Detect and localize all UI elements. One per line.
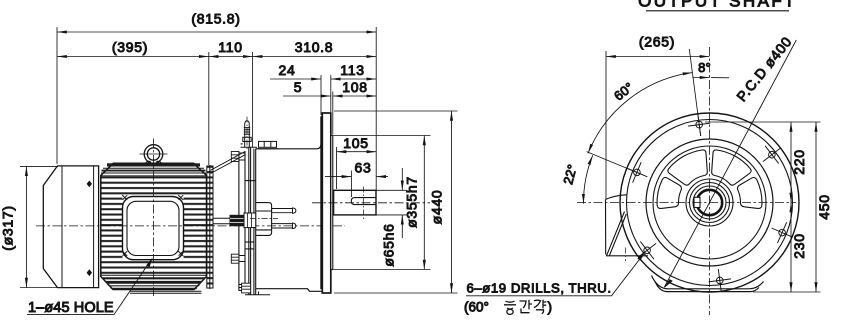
flange disc — [322, 113, 331, 293]
ext line keyway start — [350, 171, 352, 198]
svg-text:60°: 60° — [611, 79, 636, 103]
ext line 105 — [336, 147, 338, 189]
ext line top hole level — [705, 121, 821, 123]
dim 310.8 — [253, 56, 377, 58]
dim 8deg arrow — [692, 77, 729, 79]
bottom foot — [652, 276, 764, 292]
svg-text:230: 230 — [791, 233, 807, 258]
arc 60deg — [588, 73, 692, 154]
bolt hole 3 lower-left — [638, 241, 656, 259]
dim 395 — [57, 56, 209, 58]
svg-text:(265): (265) — [639, 34, 675, 50]
coupling dark blob — [230, 213, 256, 228]
dim 265 — [606, 56, 710, 58]
svg-text:5: 5 — [294, 79, 303, 95]
dim 220 — [790, 122, 792, 203]
flange rim circle — [627, 120, 793, 286]
nipple centerline — [246, 117, 248, 151]
hub circle 2 — [690, 183, 730, 223]
svg-text:220: 220 — [791, 149, 807, 174]
output shaft — [334, 190, 376, 215]
dim texts left view — [0, 11, 445, 267]
dim texts right view — [464, 33, 832, 314]
ext line left end — [56, 27, 58, 164]
ext line bottom face — [753, 291, 821, 293]
ext line 265 left — [605, 51, 607, 199]
svg-text:105: 105 — [343, 135, 368, 151]
bolt hole 5 right-lower — [772, 222, 793, 243]
motor axis centerline — [36, 225, 345, 227]
dim 63 leaders — [325, 176, 351, 178]
bolt hole 1 top — [688, 113, 710, 136]
kidney opening left — [657, 177, 681, 208]
terminal box lid — [127, 201, 179, 255]
upper rod — [272, 208, 296, 213]
svg-text:ø440: ø440 — [429, 190, 445, 225]
top bracket — [241, 144, 258, 147]
diagonal brace — [211, 152, 246, 174]
flange spigot — [331, 136, 333, 270]
dim o65h6 — [377, 189, 407, 191]
motor shaft stub — [214, 218, 231, 224]
keyway center tick — [363, 187, 365, 220]
tab center tick — [625, 248, 627, 262]
korean text 60deg spacing — [504, 300, 546, 315]
bolt hole 2 upper-left — [626, 162, 647, 183]
plate bolt top — [231, 152, 245, 162]
bell housing — [256, 116, 323, 291]
svg-text:(395): (395) — [112, 39, 148, 55]
dim 5 leader — [283, 95, 331, 97]
eyebolt — [144, 145, 163, 164]
motor vertical centerline — [153, 139, 155, 297]
plate bolt mid-low — [231, 254, 245, 263]
dim 105 — [337, 151, 377, 153]
shaft keyway — [351, 198, 376, 205]
svg-text:108: 108 — [342, 79, 367, 95]
radial line 8deg — [689, 49, 700, 136]
svg-text:113: 113 — [340, 62, 364, 78]
svg-text:): ) — [548, 299, 553, 314]
fan cover — [43, 166, 98, 288]
hub circle 3 — [693, 186, 726, 219]
motor fins lower band — [102, 260, 207, 274]
rod centerline — [250, 217, 278, 219]
motor body outline — [101, 163, 207, 289]
output shaft circle — [697, 190, 722, 215]
svg-text:P.C.D ø400: P.C.D ø400 — [733, 33, 795, 104]
motor base rail — [130, 291, 201, 293]
motor bottom band — [101, 275, 206, 289]
ext line housing face — [320, 75, 322, 115]
ext line shaft end — [375, 27, 377, 190]
svg-text:(815.8): (815.8) — [191, 11, 240, 27]
dim 108 — [333, 95, 376, 97]
leader 6-o19 — [466, 252, 645, 296]
svg-text:63: 63 — [355, 160, 372, 176]
box screw marks — [122, 195, 183, 256]
radial line 68deg — [587, 152, 643, 175]
top hex bolt — [257, 141, 279, 148]
svg-text:24: 24 — [279, 62, 296, 78]
kidney opening right — [737, 177, 761, 208]
gearbox foot — [245, 292, 270, 295]
title underline — [646, 10, 789, 12]
dim 110 — [209, 56, 253, 58]
grease nipple — [243, 121, 251, 148]
flange outer circle — [620, 113, 799, 292]
dim 450 — [815, 122, 817, 292]
bearing box — [256, 203, 272, 236]
svg-text:OUTPUT SHAFT: OUTPUT SHAFT — [638, 0, 797, 11]
flange horizontal centerline — [577, 202, 796, 204]
flange vertical centerline — [709, 47, 711, 315]
shaft keyway notch — [694, 197, 700, 207]
lower rod — [272, 223, 296, 229]
motor end bracket — [207, 165, 213, 289]
adapter plate — [239, 148, 256, 295]
dim 815.8 — [57, 31, 376, 33]
eyebolt crosshair — [140, 153, 168, 155]
flange face circle inner — [653, 146, 766, 259]
fan cover clip top — [87, 181, 92, 188]
hub circle 1 — [686, 179, 733, 226]
svg-text:ø65h6: ø65h6 — [381, 223, 397, 266]
terminal box — [123, 197, 184, 260]
dim o317 — [20, 165, 58, 167]
pcd diagonal leader — [664, 40, 796, 288]
ext line plate — [252, 52, 254, 147]
svg-text:110: 110 — [218, 39, 242, 55]
svg-text:(ø317): (ø317) — [0, 205, 16, 250]
ext line spigot face — [332, 92, 334, 135]
plate bolt bottom — [239, 283, 251, 293]
dim 24 leader — [270, 78, 321, 80]
motor fins upper band — [102, 177, 207, 197]
fan cover clip bottom — [87, 269, 92, 276]
svg-text:6–ø19 DRILLS, THRU.: 6–ø19 DRILLS, THRU. — [467, 280, 612, 295]
motor top rib band — [101, 163, 206, 176]
svg-text:310.8: 310.8 — [295, 39, 334, 55]
ext line motor right — [208, 52, 210, 165]
output axis centerline — [312, 202, 430, 204]
bolt hole 6 right-upper — [763, 146, 781, 164]
svg-text:(60°: (60° — [464, 299, 489, 314]
motor fins left of terminal box — [102, 197, 123, 260]
leader 1-045 hole — [27, 258, 153, 315]
side tab — [606, 195, 649, 256]
bolt hole 4 bottom — [709, 269, 731, 292]
svg-text:1–ø45 HOLE: 1–ø45 HOLE — [28, 300, 114, 316]
svg-text:22°: 22° — [560, 163, 580, 186]
arc 22deg — [583, 155, 592, 203]
ext line flange back — [330, 75, 332, 112]
dim 230 — [790, 203, 792, 293]
dim o355h7 — [334, 135, 431, 137]
kidney opening upper-left — [668, 150, 707, 185]
svg-text:8°: 8° — [698, 60, 711, 75]
dim o440 — [334, 110, 458, 112]
dim 113 — [331, 78, 376, 80]
svg-text:ø355h7: ø355h7 — [404, 176, 420, 228]
kidney opening upper-right — [712, 150, 751, 185]
motor fins right of terminal box — [184, 197, 207, 260]
svg-text:450: 450 — [816, 194, 832, 219]
flange face circle outer — [646, 139, 773, 266]
